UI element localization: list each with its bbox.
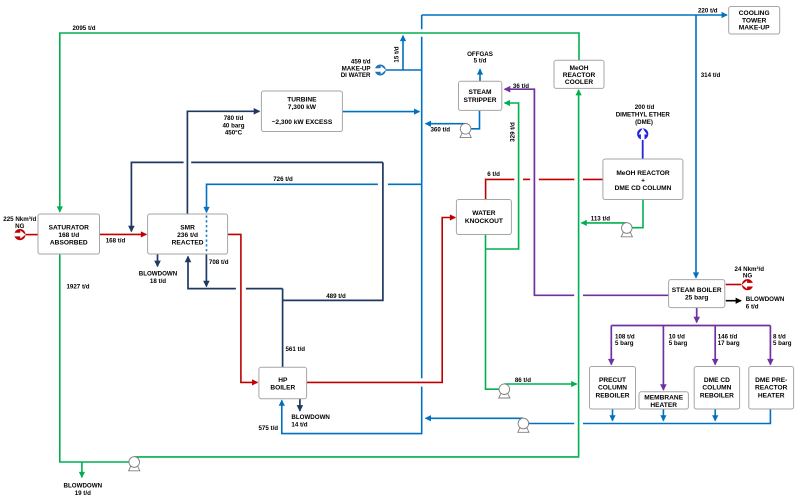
svg-text:BOILER: BOILER xyxy=(270,385,295,392)
svg-text:+: + xyxy=(641,178,645,185)
svg-text:DME PRE-: DME PRE- xyxy=(755,377,787,384)
svg-text:19 t/d: 19 t/d xyxy=(75,490,91,497)
svg-text:561 t/d: 561 t/d xyxy=(285,346,305,353)
svg-text:STEAM: STEAM xyxy=(468,89,492,96)
svg-text:SATURATOR: SATURATOR xyxy=(49,225,90,232)
svg-text:REBOILER: REBOILER xyxy=(700,392,734,399)
svg-text:25 barg: 25 barg xyxy=(685,295,708,302)
svg-text:450°C: 450°C xyxy=(225,130,243,137)
svg-text:HEATER: HEATER xyxy=(650,402,677,409)
svg-text:BLOWDOWN: BLOWDOWN xyxy=(746,296,785,303)
svg-text:15 t/d: 15 t/d xyxy=(394,46,401,62)
svg-text:MeOH REACTOR: MeOH REACTOR xyxy=(616,170,670,177)
svg-text:MEMBRANE: MEMBRANE xyxy=(644,395,683,402)
svg-text:MeOH: MeOH xyxy=(569,65,588,72)
svg-text:708 t/d: 708 t/d xyxy=(209,259,229,266)
svg-text:329 t/d: 329 t/d xyxy=(509,122,516,142)
svg-text:BLOWDOWN: BLOWDOWN xyxy=(139,271,178,278)
svg-text:COOLING: COOLING xyxy=(739,10,770,17)
svg-text:5 t/d: 5 t/d xyxy=(474,57,487,64)
svg-text:113 t/d: 113 t/d xyxy=(591,216,610,223)
svg-text:HEATER: HEATER xyxy=(758,392,785,399)
svg-text:(DME): (DME) xyxy=(635,119,653,126)
svg-text:168 t/d: 168 t/d xyxy=(58,232,79,239)
svg-text:KNOCKOUT: KNOCKOUT xyxy=(465,218,503,225)
svg-text:489 t/d: 489 t/d xyxy=(326,293,346,300)
svg-text:ABSORBED: ABSORBED xyxy=(50,240,88,247)
svg-text:5 barg: 5 barg xyxy=(773,340,792,347)
svg-text:DME CD: DME CD xyxy=(704,377,730,384)
svg-text:STEAM BOILER: STEAM BOILER xyxy=(672,287,722,294)
svg-text:COLUMN: COLUMN xyxy=(702,385,731,392)
svg-text:NG: NG xyxy=(15,223,24,230)
svg-text:780 t/d: 780 t/d xyxy=(224,115,244,122)
svg-text:WATER: WATER xyxy=(472,210,496,217)
svg-text:360 t/d: 360 t/d xyxy=(430,127,450,134)
svg-text:SMR: SMR xyxy=(180,225,195,232)
svg-text:86 t/d: 86 t/d xyxy=(515,377,531,384)
svg-text:HP: HP xyxy=(278,377,288,384)
svg-text:1927 t/d: 1927 t/d xyxy=(66,284,89,291)
svg-text:220 t/d: 220 t/d xyxy=(698,7,718,14)
svg-text:BLOWDOWN: BLOWDOWN xyxy=(291,414,330,421)
svg-text:5 barg: 5 barg xyxy=(669,340,688,347)
svg-text:NG: NG xyxy=(743,272,752,279)
svg-text:REACTOR: REACTOR xyxy=(755,385,788,392)
svg-text:REACTED: REACTED xyxy=(172,240,204,247)
svg-text:~2,300 kW EXCESS: ~2,300 kW EXCESS xyxy=(272,119,333,126)
svg-text:REBOILER: REBOILER xyxy=(595,392,629,399)
svg-text:2095 t/d: 2095 t/d xyxy=(72,25,95,32)
svg-text:BLOWDOWN: BLOWDOWN xyxy=(64,483,103,490)
svg-text:DME CD COLUMN: DME CD COLUMN xyxy=(615,185,672,192)
svg-text:14 t/d: 14 t/d xyxy=(291,422,307,429)
svg-text:MAKE-UP: MAKE-UP xyxy=(739,25,770,32)
svg-text:236 t/d: 236 t/d xyxy=(177,232,198,239)
svg-text:TOWER: TOWER xyxy=(742,17,767,24)
svg-text:314 t/d: 314 t/d xyxy=(701,72,721,79)
svg-text:7,300 kW: 7,300 kW xyxy=(288,104,317,111)
svg-text:DIMETHYL ETHER: DIMETHYL ETHER xyxy=(616,111,671,118)
svg-text:6 t/d: 6 t/d xyxy=(487,171,500,178)
svg-text:17 barg: 17 barg xyxy=(718,340,740,347)
svg-text:36 t/d: 36 t/d xyxy=(513,83,529,90)
svg-text:COOLER: COOLER xyxy=(565,79,593,86)
svg-text:40 barg: 40 barg xyxy=(222,122,244,129)
svg-text:COLUMN: COLUMN xyxy=(598,385,627,392)
svg-text:726 t/d: 726 t/d xyxy=(273,176,293,183)
svg-text:STRIPPER: STRIPPER xyxy=(464,97,497,104)
svg-text:168 t/d: 168 t/d xyxy=(106,237,126,244)
svg-text:REACTOR: REACTOR xyxy=(563,72,596,79)
svg-text:DI WATER: DI WATER xyxy=(341,72,371,79)
svg-text:575 t/d: 575 t/d xyxy=(258,425,278,432)
svg-text:6 t/d: 6 t/d xyxy=(746,304,759,311)
svg-text:200 t/d: 200 t/d xyxy=(635,104,655,111)
svg-text:TURBINE: TURBINE xyxy=(287,97,317,104)
svg-text:18 t/d: 18 t/d xyxy=(150,278,166,285)
svg-text:PRECUT: PRECUT xyxy=(599,377,626,384)
svg-text:5 barg: 5 barg xyxy=(615,340,634,347)
